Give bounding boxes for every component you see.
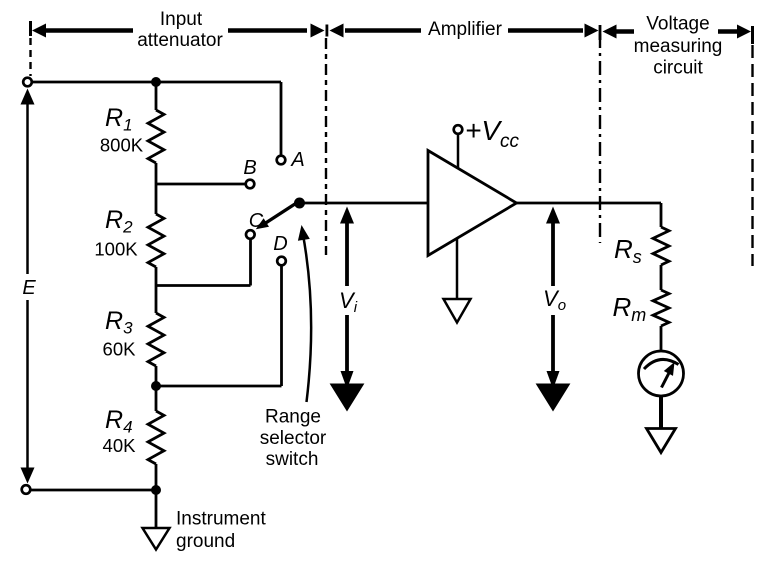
svg-text:ground: ground [176, 531, 235, 552]
svg-text:measuring: measuring [634, 36, 723, 57]
svg-text:Amplifier: Amplifier [428, 19, 503, 40]
svg-text:D: D [273, 233, 287, 255]
svg-text:selector: selector [260, 428, 327, 449]
svg-text:A: A [290, 149, 304, 171]
svg-text:100K: 100K [94, 239, 138, 260]
svg-text:Input: Input [160, 9, 203, 30]
svg-text:circuit: circuit [653, 58, 703, 79]
svg-text:E: E [22, 277, 36, 299]
svg-text:attenuator: attenuator [137, 30, 223, 51]
svg-text:Instrument: Instrument [176, 509, 266, 530]
svg-text:Voltage: Voltage [646, 14, 709, 35]
svg-text:40K: 40K [103, 435, 137, 456]
svg-text:B: B [243, 157, 256, 179]
svg-text:800K: 800K [100, 135, 144, 156]
svg-text:60K: 60K [103, 339, 137, 360]
svg-text:switch: switch [266, 449, 319, 470]
svg-text:Range: Range [265, 407, 321, 428]
